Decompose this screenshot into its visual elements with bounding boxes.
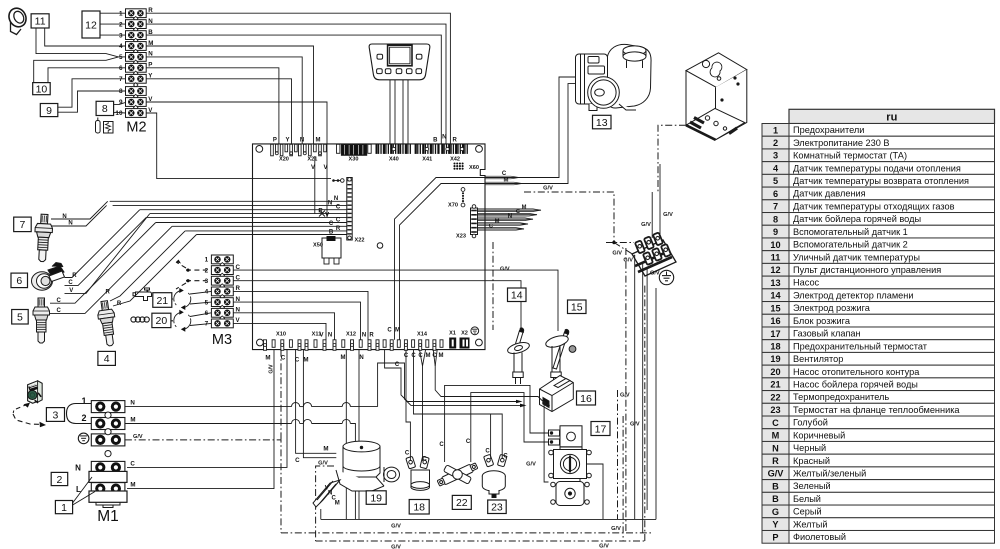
fan G/V dash wire <box>316 466 334 541</box>
svg-text:N: N <box>362 332 366 338</box>
wire 23 left <box>490 414 492 459</box>
label box 10 <box>33 83 51 95</box>
PCB corner screw holes <box>256 146 263 153</box>
X22 wire bundle horizontals <box>110 200 347 202</box>
M1 N wire <box>125 406 292 408</box>
label box 11 <box>31 14 49 28</box>
dash tick <box>12 411 15 414</box>
svg-text:3: 3 <box>119 32 123 39</box>
svg-text:G/V: G/V <box>623 257 633 263</box>
coil icon (20) <box>131 317 136 322</box>
svg-text:R: R <box>772 456 779 466</box>
chassis bracket <box>686 53 747 140</box>
svg-text:13: 13 <box>596 117 608 129</box>
label box 1 <box>55 501 72 514</box>
connector X10 (bottom) <box>264 340 267 351</box>
connector X70 <box>461 188 465 192</box>
dashed room-stat wires to M3 rows 2-3 <box>186 269 207 271</box>
svg-text:C: C <box>466 439 471 445</box>
svg-text:Термостат на фланце теплообмен: Термостат на фланце теплообменника <box>793 405 960 415</box>
svg-text:16: 16 <box>580 393 592 405</box>
svg-text:Электрод розжига: Электрод розжига <box>793 303 871 313</box>
svg-text:C: C <box>295 356 300 363</box>
connector X12 (bottom) <box>333 340 336 351</box>
svg-text:3: 3 <box>53 409 59 421</box>
PCB main board outline <box>253 144 486 350</box>
svg-text:12: 12 <box>85 19 97 31</box>
svg-text:2: 2 <box>773 138 778 148</box>
svg-text:V: V <box>69 288 73 294</box>
svg-text:5: 5 <box>17 312 23 324</box>
label box 22 <box>452 495 471 509</box>
M3 R wire <box>233 291 368 339</box>
M3 C wire to electrode 15 <box>233 270 558 331</box>
svg-text:M: M <box>341 355 346 361</box>
svg-text:N: N <box>62 214 66 220</box>
svg-text:6: 6 <box>119 65 123 72</box>
svg-text:M: M <box>265 354 270 361</box>
svg-text:G: G <box>772 507 779 517</box>
label box 12 <box>82 11 100 38</box>
svg-text:B: B <box>772 494 779 504</box>
pressure sensor 6 <box>32 263 65 291</box>
svg-text:N: N <box>442 134 446 140</box>
svg-text:10: 10 <box>36 83 48 95</box>
svg-text:V: V <box>319 332 323 338</box>
svg-text:M: M <box>426 353 431 359</box>
connector X22 (internal header) <box>347 178 352 241</box>
svg-text:14: 14 <box>511 290 523 302</box>
fan M wire from X10 <box>296 350 337 454</box>
control display unit <box>369 44 430 80</box>
svg-text:6: 6 <box>773 189 778 199</box>
svg-text:Датчик температуры отходящих г: Датчик температуры отходящих газов <box>793 201 955 211</box>
M3 C wire to electrode 14 <box>233 281 521 331</box>
svg-text:Голубой: Голубой <box>793 418 828 428</box>
connector X40 (bar pins) <box>376 144 378 154</box>
svg-text:17: 17 <box>770 329 780 339</box>
svg-text:10: 10 <box>115 110 123 117</box>
svg-text:C: C <box>772 418 779 428</box>
M1 M wire <box>125 423 292 425</box>
connector X30 (dark) <box>341 144 366 155</box>
M3 V wire <box>233 323 326 339</box>
svg-text:Серый: Серый <box>793 507 822 517</box>
display cable (4 wires to X40) <box>389 80 391 145</box>
label box 6 <box>11 273 28 288</box>
svg-text:Предохранители: Предохранители <box>793 125 864 135</box>
svg-text:X10: X10 <box>276 331 286 337</box>
svg-text:23: 23 <box>770 405 780 415</box>
sensor 7 wires <box>51 201 108 219</box>
svg-text:20: 20 <box>770 367 780 377</box>
svg-text:16: 16 <box>770 316 780 326</box>
label box 20 <box>152 313 171 327</box>
faucet icon (21) <box>133 288 152 301</box>
svg-text:M: M <box>772 431 780 441</box>
svg-text:N: N <box>334 196 338 202</box>
svg-text:G/V: G/V <box>526 461 536 467</box>
earth symbol on PCB <box>471 327 479 335</box>
svg-text:N: N <box>328 332 332 338</box>
svg-text:G/V: G/V <box>641 222 651 228</box>
svg-text:20: 20 <box>156 315 168 327</box>
M1 terminal row 2 <box>91 418 125 430</box>
wires into block 16 with arrows <box>378 363 520 407</box>
svg-text:C: C <box>329 221 334 227</box>
svg-text:18: 18 <box>413 502 425 514</box>
svg-text:N: N <box>772 443 779 453</box>
svg-text:G/V: G/V <box>269 364 275 374</box>
label box 17 <box>591 422 610 436</box>
connector X41 (bar pins) <box>415 144 417 154</box>
M3 terminal 6 <box>211 308 233 317</box>
svg-text:Зеленый: Зеленый <box>793 481 831 491</box>
svg-text:5: 5 <box>119 54 123 61</box>
sensor 4 wires <box>110 231 185 301</box>
svg-text:C: C <box>336 217 341 223</box>
label box 23 <box>488 500 507 514</box>
svg-text:Датчик температуры подачи отоп: Датчик температуры подачи отопления <box>793 163 961 173</box>
svg-text:X22: X22 <box>355 238 365 244</box>
svg-text:Датчик бойлера горячей воды: Датчик бойлера горячей воды <box>793 214 921 224</box>
svg-text:N: N <box>130 400 135 407</box>
svg-text:X30: X30 <box>349 156 359 162</box>
svg-text:15: 15 <box>571 302 583 314</box>
connector X50 (relay) <box>322 238 341 258</box>
svg-text:21: 21 <box>156 295 168 307</box>
label box 16 <box>577 391 596 405</box>
legend table <box>762 109 995 543</box>
M2 terminal 7 <box>126 74 147 83</box>
X10 G/V dash vertical <box>280 350 282 440</box>
wires box8 to M2 <box>114 102 126 104</box>
svg-text:X50: X50 <box>313 243 323 249</box>
svg-text:15: 15 <box>770 303 780 313</box>
svg-text:Фиолетовый: Фиолетовый <box>793 532 846 542</box>
svg-text:R: R <box>453 137 458 143</box>
ignition block 16 <box>540 376 574 412</box>
svg-text:X12: X12 <box>346 331 356 337</box>
svg-text:C: C <box>57 308 62 314</box>
wire to 18 left <box>406 350 410 461</box>
label box 19 <box>366 491 386 505</box>
svg-text:Датчик температуры возврата от: Датчик температуры возврата отопления <box>793 176 969 186</box>
svg-text:X23: X23 <box>456 234 466 240</box>
svg-text:C: C <box>130 460 135 467</box>
connector X14 (bottom) <box>376 340 379 351</box>
wire to 23 right <box>414 350 503 459</box>
M2 terminal 10 <box>126 109 147 118</box>
svg-text:V: V <box>323 165 327 171</box>
label box 8 <box>96 101 114 115</box>
crossing mark <box>319 211 325 217</box>
display bottom buttons <box>377 69 383 74</box>
svg-text:G/V: G/V <box>663 212 673 218</box>
display screen <box>388 45 412 66</box>
svg-text:23: 23 <box>491 502 503 514</box>
svg-text:C: C <box>68 280 73 286</box>
svg-text:G/V: G/V <box>543 185 553 191</box>
outdoor sensor icon <box>6 5 29 34</box>
room thermostat icon (green) <box>28 381 42 404</box>
svg-text:X14: X14 <box>417 331 428 337</box>
svg-text:12: 12 <box>770 265 780 275</box>
svg-text:Черный: Черный <box>793 443 826 453</box>
M2 terminal 4 <box>126 42 147 51</box>
wires box9 to M2 <box>58 79 126 107</box>
svg-text:M: M <box>522 205 527 211</box>
svg-text:Желтый/зеленый: Желтый/зеленый <box>793 468 866 478</box>
M2 B wire to X42 <box>146 35 441 144</box>
svg-text:3: 3 <box>205 278 209 285</box>
svg-text:N: N <box>359 355 363 361</box>
svg-text:C: C <box>439 442 444 448</box>
svg-text:G/V: G/V <box>630 421 640 427</box>
svg-text:R: R <box>117 301 122 307</box>
wire 22 right up to valve <box>471 393 549 462</box>
M1 terminal row N <box>91 461 125 473</box>
svg-text:7: 7 <box>773 202 778 212</box>
svg-text:Вспомогательный датчик 2: Вспомогательный датчик 2 <box>793 240 908 250</box>
X12 M wire down to rail <box>345 350 347 520</box>
svg-text:M: M <box>395 327 400 333</box>
svg-text:C: C <box>281 354 286 361</box>
svg-text:22: 22 <box>456 497 468 509</box>
label box 3 <box>46 408 64 422</box>
svg-text:M: M <box>504 177 509 183</box>
svg-text:4: 4 <box>119 43 123 50</box>
svg-text:V: V <box>311 165 315 171</box>
bracket dash-dot earth wire <box>658 125 686 192</box>
svg-text:G/V: G/V <box>133 434 143 440</box>
svg-text:R: R <box>336 226 341 232</box>
dashed wires room stat to box 3 <box>16 404 28 409</box>
svg-text:X21: X21 <box>307 156 317 162</box>
svg-text:G/V: G/V <box>768 469 785 479</box>
PCB mounting hole <box>377 243 383 249</box>
svg-text:N: N <box>328 201 332 207</box>
bottom G/V rail dash-dot 2 <box>316 540 645 542</box>
svg-text:ru: ru <box>886 111 897 123</box>
X23 wire bundles <box>478 209 542 211</box>
svg-text:Газовый клапан: Газовый клапан <box>793 329 861 339</box>
svg-text:19: 19 <box>770 354 780 364</box>
svg-text:Термопредохранитель: Термопредохранитель <box>793 392 889 402</box>
label box 18 <box>409 500 429 515</box>
svg-text:21: 21 <box>770 380 780 390</box>
svg-text:11: 11 <box>771 252 781 262</box>
valve loop wire (fork M from X14) <box>433 350 548 482</box>
connector X42 (bar pins) <box>441 144 443 154</box>
flame detection electrode 14 <box>506 328 530 384</box>
label box 7 <box>14 217 32 232</box>
svg-text:Вспомогательный датчик 1: Вспомогательный датчик 1 <box>793 227 908 237</box>
svg-text:1: 1 <box>119 10 123 17</box>
M3 terminal 1 <box>211 255 233 264</box>
svg-text:X40: X40 <box>389 156 399 162</box>
svg-text:R: R <box>106 290 111 296</box>
jumper loop box3 to M1 rows 1-2 <box>67 404 92 424</box>
svg-text:3: 3 <box>773 151 778 161</box>
thermal fuse 22 <box>437 462 479 487</box>
G/V dash verticals near valve <box>622 416 624 541</box>
M1 earth symbol <box>78 433 89 444</box>
M3 terminal 2 <box>211 266 233 275</box>
supply sensor 4 <box>96 300 119 347</box>
valve right wire down <box>587 464 604 519</box>
wires box11 to M2 <box>45 28 126 46</box>
M2 N wire to X42 <box>146 24 446 144</box>
return sensor 5 <box>33 298 50 343</box>
svg-text:M: M <box>303 356 308 363</box>
label box 4 <box>98 351 116 365</box>
svg-text:14: 14 <box>770 291 781 301</box>
ignition electrode 15 <box>544 329 575 384</box>
pump C wire <box>395 178 486 340</box>
svg-text:C: C <box>405 450 410 456</box>
flange thermostat 23 <box>482 454 507 497</box>
svg-text:8: 8 <box>119 88 123 95</box>
svg-text:X60: X60 <box>469 165 479 171</box>
svg-text:M: M <box>495 218 500 224</box>
sensor 5 wires <box>50 223 156 304</box>
earth terminal block <box>632 232 676 276</box>
M1 terminal row 1 <box>91 401 125 413</box>
svg-text:G/V: G/V <box>391 524 401 530</box>
svg-text:P: P <box>273 137 277 143</box>
svg-text:X2: X2 <box>461 331 468 337</box>
svg-text:N: N <box>300 137 304 143</box>
M3 terminal 5 <box>211 298 233 307</box>
wires box12 to M2 rows 1-3 <box>100 12 126 14</box>
M1 L M wire <box>127 350 274 489</box>
svg-text:M: M <box>323 446 328 453</box>
svg-text:M3: M3 <box>212 332 232 348</box>
svg-text:19: 19 <box>370 492 382 504</box>
svg-text:C: C <box>503 453 508 459</box>
G/V wires to earth block (top) <box>651 192 653 238</box>
label box 15 <box>568 300 587 314</box>
svg-text:N: N <box>68 221 72 227</box>
M2 Y wire to X20 <box>146 79 291 145</box>
svg-text:G/V: G/V <box>650 270 660 276</box>
svg-text:X20: X20 <box>279 156 289 162</box>
M1 C wire <box>127 350 287 468</box>
M1 earth G/V wire <box>125 440 281 533</box>
svg-text:Уличный датчик температуры: Уличный датчик температуры <box>793 252 920 262</box>
svg-text:B: B <box>772 481 779 491</box>
svg-text:C: C <box>395 362 400 368</box>
label box 13 <box>593 115 612 129</box>
M2 R wire to X42 <box>146 13 450 144</box>
svg-text:9: 9 <box>119 99 123 106</box>
svg-text:G/V: G/V <box>599 543 609 549</box>
label box 2 <box>51 472 67 485</box>
X21 V loop wires <box>314 156 316 214</box>
svg-text:2: 2 <box>119 21 123 28</box>
svg-text:Насос бойлера горячей воды: Насос бойлера горячей воды <box>793 379 918 389</box>
M2 terminal 8 <box>126 87 147 96</box>
svg-text:9: 9 <box>46 105 52 117</box>
svg-text:1: 1 <box>81 396 86 406</box>
M2 V wire row10 to splice <box>146 113 331 179</box>
M1 fuse holders <box>89 471 127 482</box>
svg-text:C: C <box>422 456 427 462</box>
svg-text:C: C <box>432 353 437 359</box>
svg-text:17: 17 <box>595 423 607 435</box>
svg-text:X70: X70 <box>448 203 458 209</box>
M3 N wire 2 <box>233 302 360 340</box>
svg-text:G/V: G/V <box>611 526 621 532</box>
bottom G/V rail solid <box>321 518 656 520</box>
svg-text:Насос отопительного контура: Насос отопительного контура <box>793 367 920 377</box>
safety thermostat 18 <box>406 456 430 490</box>
pump symbol stub wires to M3 <box>190 291 211 294</box>
label box 14 <box>508 288 527 302</box>
connector X60 dot grid <box>453 162 455 164</box>
connector X23 <box>471 208 478 235</box>
fork wire to 18 right <box>420 350 423 461</box>
svg-text:M: M <box>439 353 444 359</box>
svg-text:1: 1 <box>205 257 209 264</box>
svg-text:Электропитание 230 В: Электропитание 230 В <box>793 138 890 148</box>
svg-text:C: C <box>387 327 392 333</box>
svg-text:Y: Y <box>285 137 289 143</box>
svg-text:N: N <box>508 214 512 220</box>
M2 V wire row9 <box>146 102 327 156</box>
pump symbol (DHW) <box>174 312 183 321</box>
M2 terminal 2 <box>126 20 147 29</box>
svg-text:Датчик давления: Датчик давления <box>793 189 866 199</box>
svg-text:9: 9 <box>773 227 778 237</box>
svg-text:4: 4 <box>773 163 779 173</box>
svg-text:R: R <box>72 273 77 279</box>
connector X20 <box>271 144 274 156</box>
label box 5 <box>12 310 29 325</box>
svg-text:Насос: Насос <box>793 278 820 288</box>
svg-text:Электрод детектор пламени: Электрод детектор пламени <box>793 290 914 300</box>
svg-text:Y: Y <box>772 520 778 530</box>
svg-text:11: 11 <box>35 16 46 28</box>
pump 13 <box>576 44 652 110</box>
svg-text:G/V: G/V <box>500 266 510 272</box>
svg-text:1: 1 <box>61 502 67 514</box>
svg-text:1: 1 <box>773 125 778 135</box>
svg-text:13: 13 <box>770 278 780 288</box>
svg-text:G/V: G/V <box>612 250 622 256</box>
label box 9 <box>40 104 58 117</box>
M2 terminal 3 <box>126 31 147 40</box>
svg-text:8: 8 <box>773 214 778 224</box>
svg-text:Красный: Красный <box>793 456 830 466</box>
connector X21 <box>299 144 302 156</box>
svg-text:6: 6 <box>16 275 22 287</box>
svg-text:2: 2 <box>205 267 209 274</box>
svg-text:B: B <box>433 137 438 143</box>
splice dots <box>332 179 335 182</box>
M2 P wire to X20 <box>146 68 279 145</box>
svg-text:G/V: G/V <box>620 392 630 398</box>
svg-text:C: C <box>502 171 507 177</box>
M1 terminal row E <box>91 434 125 446</box>
fan 19 <box>313 441 400 507</box>
fuse X2 <box>460 338 470 349</box>
M2 terminal 1 <box>126 9 147 18</box>
label box 21 <box>153 293 172 308</box>
svg-text:C: C <box>336 205 341 211</box>
M3 terminal 3 <box>211 276 233 285</box>
